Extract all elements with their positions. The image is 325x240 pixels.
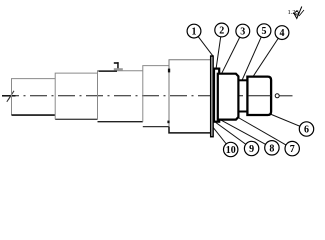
shaft step 1 bbox=[12, 79, 56, 116]
balloon 4 bbox=[275, 26, 289, 40]
leader 6 bbox=[269, 114, 307, 130]
shaft step 2 bbox=[55, 73, 97, 119]
balloon 5 bbox=[257, 24, 271, 38]
balloon 8 bbox=[265, 141, 279, 155]
surface finish symbol 1.25 bbox=[288, 7, 305, 19]
shaft tip circle at right end bbox=[275, 94, 279, 98]
balloon 10 bbox=[224, 142, 238, 156]
svg-text:2: 2 bbox=[219, 25, 224, 36]
leader 2 bbox=[216, 30, 222, 68]
leader 8 bbox=[221, 120, 272, 148]
keyway detail on step 3 bbox=[114, 62, 123, 70]
svg-text:4: 4 bbox=[280, 28, 285, 39]
neck / spacer top line bbox=[238, 79, 247, 81]
leader 10 bbox=[212, 127, 230, 150]
svg-text:6: 6 bbox=[304, 125, 309, 136]
leader 7 bbox=[233, 115, 292, 149]
leader 5 bbox=[242, 31, 264, 81]
balloon 6 bbox=[299, 122, 313, 136]
chamfer tick top of step 5 bbox=[168, 69, 170, 73]
balloon 1 bbox=[187, 24, 201, 38]
leader 9 bbox=[216, 123, 252, 149]
leader 4 bbox=[253, 33, 282, 77]
nut (right end) bbox=[247, 77, 271, 115]
svg-text:1: 1 bbox=[192, 27, 197, 38]
balloon 3 bbox=[236, 24, 250, 38]
break arrow left end bbox=[2, 95, 16, 97]
collar lip of sleeve bbox=[214, 69, 219, 122]
sleeve body bbox=[218, 74, 239, 120]
svg-text:3: 3 bbox=[240, 27, 245, 38]
svg-text:10: 10 bbox=[226, 145, 236, 156]
leader 1 bbox=[194, 31, 213, 55]
shaft step 4 bbox=[143, 66, 169, 127]
chamfer tick bottom of step 5 bbox=[167, 121, 169, 124]
svg-text:8: 8 bbox=[269, 143, 274, 154]
balloon 7 bbox=[285, 141, 299, 155]
balloon 9 bbox=[244, 141, 258, 155]
flange disc bbox=[211, 56, 213, 137]
leader 3 bbox=[222, 31, 243, 73]
svg-text:9: 9 bbox=[249, 144, 254, 155]
neck / spacer bottom line bbox=[238, 111, 247, 113]
shaft step 5 (large cylinder) bbox=[169, 60, 210, 133]
svg-text:5: 5 bbox=[262, 26, 267, 37]
centerline bbox=[2, 95, 293, 97]
shaft step 3 bbox=[98, 71, 143, 122]
centerline through nut bbox=[249, 95, 271, 97]
svg-text:7: 7 bbox=[290, 144, 295, 155]
balloon 2 bbox=[215, 23, 229, 37]
